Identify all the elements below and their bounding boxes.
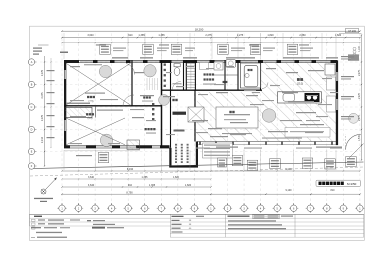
svg-text:3,640: 3,640 xyxy=(88,184,95,187)
svg-text:1,365: 1,365 xyxy=(149,184,156,187)
svg-text:2,275: 2,275 xyxy=(205,34,212,37)
svg-text:1,530: 1,530 xyxy=(359,134,361,140)
svg-text:D: D xyxy=(31,129,33,132)
svg-text:2,210: 2,210 xyxy=(41,136,44,143)
svg-text:8,790: 8,790 xyxy=(126,191,133,194)
svg-text:1,820: 1,820 xyxy=(185,184,192,187)
svg-text:2,275: 2,275 xyxy=(41,92,44,99)
svg-text:9,100: 9,100 xyxy=(285,168,292,171)
svg-text:18,200: 18,200 xyxy=(195,27,204,31)
svg-text:(7.5): (7.5) xyxy=(89,100,94,103)
svg-text:CT-190: CT-190 xyxy=(348,30,357,33)
svg-text:2,275: 2,275 xyxy=(41,114,44,121)
svg-text:1,365: 1,365 xyxy=(142,176,149,179)
svg-text:2,275: 2,275 xyxy=(359,114,361,120)
svg-text:S=1/50: S=1/50 xyxy=(347,182,357,186)
svg-text:(25.5): (25.5) xyxy=(297,83,303,86)
svg-text:1,820: 1,820 xyxy=(267,34,274,37)
svg-text:2,275: 2,275 xyxy=(41,69,44,76)
svg-text:910: 910 xyxy=(128,184,133,187)
svg-text:1,820: 1,820 xyxy=(173,176,180,179)
svg-text:1,100: 1,100 xyxy=(359,45,361,51)
svg-text:1,365: 1,365 xyxy=(138,34,145,37)
svg-text:C: C xyxy=(31,106,33,109)
svg-text:2,275: 2,275 xyxy=(359,92,361,98)
svg-text:3,640: 3,640 xyxy=(88,176,95,179)
svg-text:3,640: 3,640 xyxy=(87,34,94,37)
svg-text:910: 910 xyxy=(128,34,133,37)
svg-text:9,100: 9,100 xyxy=(286,189,293,192)
svg-text:810: 810 xyxy=(331,189,336,192)
svg-text:1,365: 1,365 xyxy=(158,34,165,37)
svg-text:2,275: 2,275 xyxy=(359,69,361,75)
svg-text:2,860: 2,860 xyxy=(299,34,306,37)
svg-text:(6.0): (6.0) xyxy=(88,117,93,120)
